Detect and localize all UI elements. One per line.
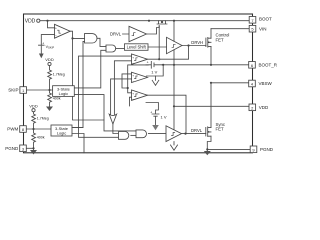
svg-text:+: + xyxy=(132,91,134,95)
logic gate AND4 xyxy=(136,130,147,138)
transistor Q3 bootstrap switch xyxy=(157,21,167,26)
wire comp3 aux to battery lower xyxy=(146,103,158,114)
wire AND1 out to AND2 xyxy=(97,38,106,46)
pin 9 PGND pad xyxy=(250,146,274,153)
svg-text:FET: FET xyxy=(216,127,224,132)
svg-text:Level Shift: Level Shift xyxy=(127,45,147,50)
node pwm divider xyxy=(32,128,34,130)
wire battery to BOOT_R rail xyxy=(162,64,249,66)
wire AND4 out to DRVL driver xyxy=(148,133,166,135)
ground below VSKIP xyxy=(39,54,44,59)
svg-text:VDD: VDD xyxy=(29,103,38,108)
svg-text:VDD: VDD xyxy=(45,57,54,62)
wire AND1 lower input from 3-state xyxy=(72,41,85,127)
wire VDD top rail xyxy=(40,20,249,22)
wire AND2 lower input bus v90 xyxy=(75,50,107,88)
wire 3-state lower out2 xyxy=(72,134,84,153)
svg-text:1 V: 1 V xyxy=(161,114,167,119)
resistor R3 1.7Meg pwm pullup xyxy=(29,103,49,129)
svg-text:+: + xyxy=(42,42,44,46)
wire 3-state lower out1 xyxy=(72,127,83,129)
terminal VDD top-left xyxy=(37,19,40,22)
logic gate AND1 xyxy=(85,34,98,43)
svg-text:−: − xyxy=(132,97,134,101)
svg-text:+: + xyxy=(132,55,134,59)
svg-text:1 V: 1 V xyxy=(151,69,157,74)
logic gate OR1 pointing down xyxy=(109,114,116,124)
wire DRVH lower rail long vertical xyxy=(173,50,175,130)
svg-text:+: + xyxy=(132,74,134,78)
svg-text:VDD: VDD xyxy=(259,105,269,110)
ground below sync FET xyxy=(204,151,211,155)
battery 1V upper xyxy=(146,60,163,74)
transistor Q2 sync FET xyxy=(206,83,211,150)
svg-text:DRVH: DRVH xyxy=(191,40,203,45)
pin 7 BOOT xyxy=(249,17,272,24)
ground at pwm divider xyxy=(30,150,37,155)
svg-text:SKIP: SKIP xyxy=(8,88,18,93)
wire comp2 out to BOOT_R junction xyxy=(147,65,164,76)
svg-text:−: − xyxy=(55,34,57,38)
wire comp1 +input xyxy=(79,56,132,137)
wire comp3 -input stub xyxy=(130,97,132,106)
wire VIN xyxy=(211,28,249,30)
wire comp3 out down to DRVL node xyxy=(148,95,187,133)
svg-text:VIN: VIN xyxy=(259,26,267,31)
node BOOT rail junction xyxy=(173,20,175,22)
svg-text:BOOT: BOOT xyxy=(259,17,272,22)
svg-text:1.7Meg: 1.7Meg xyxy=(37,117,49,121)
comparator C3 xyxy=(132,90,148,101)
wire sync FET source to PGND pin xyxy=(207,148,250,150)
resistor R4 400k pwm pulldown xyxy=(32,129,45,148)
svg-text:DRVL: DRVL xyxy=(191,128,203,133)
pin 1 SKIP xyxy=(8,87,26,94)
wire comp2 -input xyxy=(111,79,132,115)
svg-text:Logic: Logic xyxy=(57,131,67,136)
comparator C2 xyxy=(132,72,148,83)
comparator C1 xyxy=(132,54,148,65)
wire AND2 out to level shift xyxy=(116,48,125,50)
ground below battery lower xyxy=(152,125,159,130)
wire 3-state upper out2 xyxy=(75,95,137,131)
svg-text:−: − xyxy=(132,79,134,83)
svg-text:−: − xyxy=(132,61,134,65)
IC boundary box xyxy=(24,14,253,153)
ground hanging from comp2 line xyxy=(155,76,157,80)
node gate junction xyxy=(158,58,160,60)
wire VDD pin to DRVL rail xyxy=(174,105,249,107)
driver U3 DRVH xyxy=(167,37,183,53)
svg-text:+: + xyxy=(150,111,152,115)
wire DRVH output xyxy=(182,45,206,47)
block 3-State Logic upper xyxy=(53,86,75,97)
svg-text:+: + xyxy=(147,60,149,64)
wire SKIP pin to 3-state xyxy=(27,89,53,91)
wire DRVL rail to ground xyxy=(173,142,175,146)
svg-text:400k: 400k xyxy=(53,97,61,101)
wire level shift to DRVH driver xyxy=(148,46,167,48)
ground below DRVL driver xyxy=(171,145,178,150)
voltage source VSKIP xyxy=(39,35,55,54)
node skip divider xyxy=(48,89,50,91)
svg-text:PWM: PWM xyxy=(7,127,18,132)
wire DRVL output xyxy=(182,133,206,135)
svg-text:DRVL: DRVL xyxy=(110,31,122,36)
wire bus v72 xyxy=(73,38,105,120)
buffer U2 boot switch driver xyxy=(123,26,147,41)
svg-text:PGND: PGND xyxy=(260,147,274,152)
wire buffer out to boot switch gate xyxy=(147,26,160,34)
wire comp1 out to AND1 xyxy=(70,31,84,38)
block 3-State Logic lower xyxy=(51,125,72,136)
label DRVH xyxy=(191,40,201,45)
node VDD junction xyxy=(46,20,48,22)
svg-text:BOOT_R: BOOT_R xyxy=(259,63,278,68)
node top rail junction xyxy=(148,20,150,22)
wire BOOT rail into DRVH top xyxy=(173,21,175,42)
wire boot switch gate to comp1 output rail xyxy=(158,26,160,59)
logic gate AND2 xyxy=(106,45,116,52)
resistor R2 400k skip pulldown xyxy=(48,90,61,107)
logic gate AND3 xyxy=(119,132,129,140)
wire comp2 +input xyxy=(122,74,132,88)
svg-text:Logic: Logic xyxy=(59,91,69,96)
svg-text:FET: FET xyxy=(216,37,224,42)
svg-text:1.7Meg: 1.7Meg xyxy=(53,73,65,77)
node pgnd junction xyxy=(32,147,34,149)
pin 5 VIN xyxy=(249,25,266,32)
battery 1V lower xyxy=(150,111,167,125)
svg-text:VDD: VDD xyxy=(25,19,36,25)
wire comp1 output feedback xyxy=(148,46,189,60)
svg-text:+: + xyxy=(55,27,57,31)
svg-text:400k: 400k xyxy=(37,136,45,140)
op-amp U1 VDD UVLO comparator xyxy=(48,21,71,39)
wire PWM pin to 3-state lower xyxy=(26,128,51,130)
pin 3 PGND xyxy=(5,145,26,152)
pin 8 PWM xyxy=(7,126,26,133)
wire OR1 out to AND3 xyxy=(113,124,119,134)
pin 6 BOOT_R xyxy=(249,62,278,69)
pin 2 VDD xyxy=(249,104,269,111)
pin 4 VBSW xyxy=(249,80,273,87)
svg-text:VBSW: VBSW xyxy=(259,81,273,86)
wire AND3 out xyxy=(131,134,136,136)
wire PGND pin to divider xyxy=(26,147,33,149)
resistor R1 1.7Meg skip pullup xyxy=(45,57,65,90)
svg-text:VSKIP: VSKIP xyxy=(46,45,55,50)
driver U4 DRVL xyxy=(166,126,182,142)
wire comp1 -input xyxy=(114,61,131,115)
wire comp3 +input bus xyxy=(128,65,149,93)
node comp1 out junction xyxy=(71,37,73,39)
wire VBSW rail xyxy=(211,82,249,84)
transistor Q1 control FET xyxy=(206,29,211,65)
svg-text:PGND: PGND xyxy=(5,146,19,151)
block Level Shift xyxy=(125,44,149,51)
ground below skip divider xyxy=(46,107,53,112)
